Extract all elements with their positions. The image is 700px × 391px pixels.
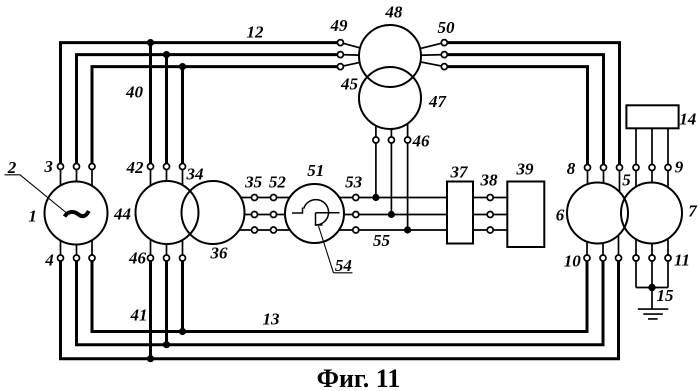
svg-text:14: 14: [679, 110, 696, 129]
svg-text:3: 3: [43, 157, 53, 176]
wire transformer 47 drop c to middle row 3 junction: [407, 100, 409, 230]
terminal circles group machine 7 top node 9: [633, 165, 671, 171]
wire top bus A right segment with corner down to machine 6 terminal 8c: [447, 43, 619, 168]
machine 44 circle: [136, 181, 199, 244]
box 14: [626, 105, 678, 128]
terminal circles group node 50: [441, 40, 447, 70]
wire machine 44 leads top and bottom thin stubs: [151, 167, 183, 259]
wire middle row 3 machine 36 to box 37 through terminals 35 52 53: [213, 229, 507, 231]
wire machine 44 terminal 42a up to bus A: [149, 43, 152, 167]
junction dot machine 44 bottom a on bus F: [147, 356, 153, 362]
generator 1 tilde symbol: [65, 211, 89, 217]
terminal circles group node 38: [487, 195, 493, 234]
label 2 leader line: [5, 175, 67, 213]
svg-text:55: 55: [373, 231, 391, 250]
svg-text:12: 12: [247, 23, 265, 42]
svg-text:45: 45: [340, 75, 359, 94]
terminal circles group node 35: [252, 195, 258, 234]
wire middle row 2 machine 36 to box 37 through terminals 35 52 53: [213, 214, 507, 216]
terminal circles group machine 7 bottom node 11: [633, 255, 671, 261]
transformer 47 circle: [359, 67, 421, 129]
wire top bus C left segment with corner down to generator terminal 3c: [92, 67, 337, 167]
svg-text:9: 9: [675, 158, 684, 177]
wire transformer 47 drop b to middle row 2 junction: [390, 100, 392, 215]
wire transformer 48 right slanted leads to terminals 50: [390, 43, 444, 67]
svg-text:39: 39: [516, 159, 535, 178]
wire machine 44 terminal 34 up to bus C: [181, 67, 184, 167]
box 39: [507, 182, 544, 248]
terminal circles group machine 44 top nodes 42 34: [148, 164, 186, 170]
svg-text:10: 10: [564, 252, 582, 271]
svg-text:6: 6: [556, 206, 565, 225]
wire top bus B left segment with corner down to generator terminal 3b: [77, 55, 338, 167]
terminal circles group node 52: [271, 195, 277, 234]
wire machine 44 terminal 46c down to bus D: [181, 258, 184, 332]
machine 36 circle: [182, 181, 245, 244]
machine 6 circle: [567, 183, 628, 244]
terminal circles group machine 6 bottom node 10: [584, 255, 622, 261]
junction dot machine 44 bottom c on bus D: [179, 328, 185, 334]
svg-text:8: 8: [567, 159, 576, 178]
svg-text:50: 50: [438, 18, 456, 37]
junction dot machine 44 top c on bus C: [179, 64, 185, 70]
svg-text:34: 34: [186, 165, 204, 184]
junction dot transformer 47 drop c on row 3: [405, 227, 411, 233]
svg-text:48: 48: [384, 2, 403, 21]
svg-text:36: 36: [210, 244, 229, 263]
wire top bus B right segment with corner down to machine 6 terminal 8b: [447, 55, 603, 168]
svg-text:51: 51: [307, 161, 324, 180]
junction dot transformer 47 drop a on row 1: [373, 194, 379, 200]
junction dot machine 44 top b on bus B: [163, 52, 169, 58]
svg-text:13: 13: [263, 310, 281, 329]
wire top bus A left segment with corner down to generator terminal 3a: [61, 43, 338, 167]
svg-text:41: 41: [130, 306, 148, 325]
junction dot star point 15: [649, 284, 655, 290]
terminal circles group machine 6 top node 8: [585, 165, 623, 171]
junction dot machine 44 bottom b on bus E: [163, 342, 169, 348]
svg-text:2: 2: [7, 158, 17, 177]
machine 7 circle: [621, 183, 682, 244]
wire bottom bus D inner segment generator 4c to machine 6 terminal 10a: [92, 258, 587, 332]
svg-text:15: 15: [657, 286, 675, 305]
svg-text:Фиг. 11: Фиг. 11: [317, 364, 401, 391]
svg-text:37: 37: [450, 162, 470, 181]
junction dot transformer 47 drop b on row 2: [388, 211, 394, 217]
machine circles white fills: [45, 25, 683, 245]
svg-text:40: 40: [125, 83, 144, 102]
junction dot machine 44 top a on bus A: [147, 40, 153, 46]
svg-text:46: 46: [128, 249, 147, 268]
terminal circles group transformer 47 node 46: [373, 137, 411, 143]
converter 51 inner symbol: [292, 200, 340, 225]
svg-text:5: 5: [622, 171, 631, 190]
svg-text:49: 49: [330, 16, 349, 35]
wire middle row 1 machine 36 to box 37 through terminals 35 52 53: [213, 197, 507, 199]
svg-text:53: 53: [345, 173, 363, 192]
svg-text:11: 11: [674, 251, 690, 270]
wire transformer 48 left slanted leads to terminals 49: [340, 43, 390, 67]
wire box 14 leads down to machine 7 top terminals: [636, 128, 668, 213]
wire machine 44 terminal 46a down to bus F: [149, 258, 152, 359]
wire generator 1 leads top and bottom thin stubs: [61, 167, 93, 259]
svg-text:35: 35: [244, 173, 263, 192]
svg-text:4: 4: [44, 251, 54, 270]
transformer 48 circle: [359, 25, 421, 87]
svg-text:1: 1: [28, 207, 37, 226]
wire bottom bus F outer segment generator 4a to machine 6 terminal 10c: [61, 258, 619, 359]
wire machine 7 bottom leads to star point: [636, 213, 668, 288]
wire machine 44 terminal 42b up to bus B: [165, 55, 168, 167]
terminal circles group generator 1 bottom node 4: [58, 255, 96, 261]
wire transformer 47 drop a to middle row 1 junction: [375, 100, 377, 198]
svg-text:44: 44: [113, 205, 131, 224]
svg-text:52: 52: [269, 173, 287, 192]
ground symbol 15: [638, 309, 669, 319]
wire machine 6 leads top and bottom thin stubs: [587, 168, 620, 259]
terminal circles group machine 44 bottom node 46: [148, 255, 186, 261]
label 54 underline: [334, 272, 353, 274]
wire star point to ground: [651, 288, 653, 310]
terminal circles group generator 1 top node 3: [58, 164, 96, 170]
box 37: [447, 182, 473, 244]
svg-text:54: 54: [335, 256, 352, 275]
leader line to label 54: [319, 226, 334, 273]
svg-text:47: 47: [428, 92, 448, 111]
wire bottom bus E middle segment generator 4b to machine 6 terminal 10b: [77, 258, 604, 345]
wire machine 44 terminal 46b down to bus E: [165, 258, 168, 345]
generator 1 circle: [45, 182, 108, 245]
svg-text:46: 46: [412, 132, 431, 151]
terminal circles group node 49: [337, 40, 343, 70]
terminal circles group node 53: [353, 195, 359, 234]
svg-text:42: 42: [126, 158, 145, 177]
svg-text:38: 38: [480, 171, 499, 190]
wire top bus C right segment with corner down to machine 6 terminal 8a: [447, 67, 587, 168]
converter 51 circle: [285, 184, 344, 243]
